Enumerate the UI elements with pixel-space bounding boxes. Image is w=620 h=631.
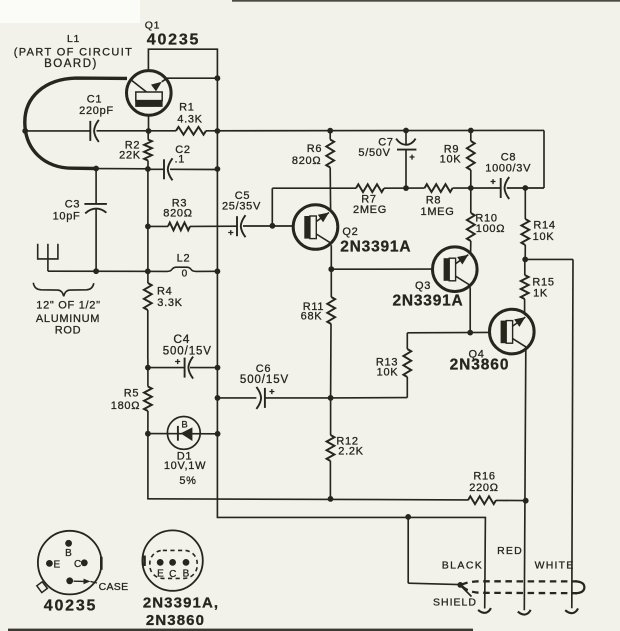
svg-text:2N3860: 2N3860: [146, 612, 205, 629]
svg-text:5%: 5%: [179, 475, 196, 487]
svg-text:WHITE: WHITE: [535, 560, 575, 572]
svg-text:100Ω: 100Ω: [476, 223, 505, 235]
svg-text:L2: L2: [177, 253, 191, 265]
svg-text:E: E: [53, 559, 60, 570]
svg-text:Q1: Q1: [145, 20, 160, 32]
svg-text:R5: R5: [124, 388, 139, 400]
svg-text:10K: 10K: [533, 231, 555, 243]
svg-text:180Ω: 180Ω: [111, 400, 140, 412]
svg-text:SHIELD: SHIELD: [433, 597, 477, 609]
svg-text:2N3391A,: 2N3391A,: [143, 595, 219, 612]
svg-text:BLACK: BLACK: [442, 560, 483, 572]
svg-text:1000/3V: 1000/3V: [485, 162, 531, 174]
svg-text:(PART OF CIRCUIT: (PART OF CIRCUIT: [14, 47, 133, 59]
svg-text:2.2K: 2.2K: [338, 446, 363, 458]
svg-text:500/15V: 500/15V: [240, 374, 289, 386]
svg-text:+: +: [175, 357, 181, 368]
svg-text:C4: C4: [173, 332, 190, 346]
svg-text:L1: L1: [67, 33, 80, 45]
svg-text:4.3K: 4.3K: [177, 113, 202, 125]
svg-text:12" OF 1/2": 12" OF 1/2": [36, 300, 100, 312]
svg-text:3.3K: 3.3K: [157, 297, 182, 309]
svg-text:Q3: Q3: [415, 280, 431, 292]
svg-text:ALUMINUM: ALUMINUM: [36, 313, 100, 325]
svg-text:.1: .1: [175, 154, 186, 166]
svg-text:1MEG: 1MEG: [421, 206, 455, 218]
svg-text:Q2: Q2: [342, 226, 358, 238]
svg-text:R8: R8: [426, 195, 441, 207]
svg-text:RED: RED: [497, 545, 523, 557]
svg-text:+: +: [409, 152, 415, 163]
svg-text:R1: R1: [179, 101, 194, 113]
svg-text:B: B: [181, 419, 187, 430]
svg-text:R4: R4: [157, 286, 172, 298]
svg-text:820Ω: 820Ω: [292, 155, 321, 167]
svg-text:C1: C1: [87, 94, 102, 106]
svg-text:10K: 10K: [377, 367, 399, 379]
svg-text:BOARD): BOARD): [44, 58, 98, 70]
svg-text:R16: R16: [473, 471, 495, 483]
svg-text:500/15V: 500/15V: [163, 346, 212, 358]
svg-text:C: C: [74, 559, 81, 570]
svg-text:B: B: [183, 569, 190, 580]
svg-text:+: +: [228, 227, 234, 238]
svg-text:+: +: [490, 176, 496, 187]
svg-text:C3: C3: [65, 199, 80, 211]
svg-text:C: C: [169, 569, 176, 580]
svg-text:10K: 10K: [440, 154, 462, 166]
svg-text:1K: 1K: [533, 288, 548, 300]
svg-text:2N3860: 2N3860: [450, 357, 510, 374]
svg-text:ROD: ROD: [55, 325, 82, 337]
svg-text:+: +: [269, 386, 275, 397]
svg-text:R14: R14: [533, 220, 555, 232]
svg-text:R6: R6: [307, 143, 322, 155]
svg-text:2N3391A: 2N3391A: [340, 238, 411, 255]
svg-text:E: E: [157, 569, 164, 580]
svg-text:40235: 40235: [147, 32, 201, 49]
svg-text:25/35V: 25/35V: [222, 200, 261, 212]
svg-text:0: 0: [182, 269, 188, 280]
svg-text:B: B: [65, 548, 72, 559]
svg-text:10V,1W: 10V,1W: [164, 460, 206, 472]
svg-text:10pF: 10pF: [53, 211, 81, 223]
svg-text:68K: 68K: [301, 311, 323, 323]
svg-text:2MEG: 2MEG: [353, 204, 387, 216]
svg-text:CASE: CASE: [99, 581, 129, 593]
svg-text:220Ω: 220Ω: [469, 482, 498, 494]
svg-text:2N3391A: 2N3391A: [392, 292, 463, 309]
svg-text:22K: 22K: [119, 149, 141, 161]
svg-text:820Ω: 820Ω: [163, 207, 192, 219]
svg-text:5/50V: 5/50V: [358, 147, 390, 159]
svg-text:220pF: 220pF: [79, 105, 114, 117]
svg-text:40235: 40235: [44, 597, 98, 614]
